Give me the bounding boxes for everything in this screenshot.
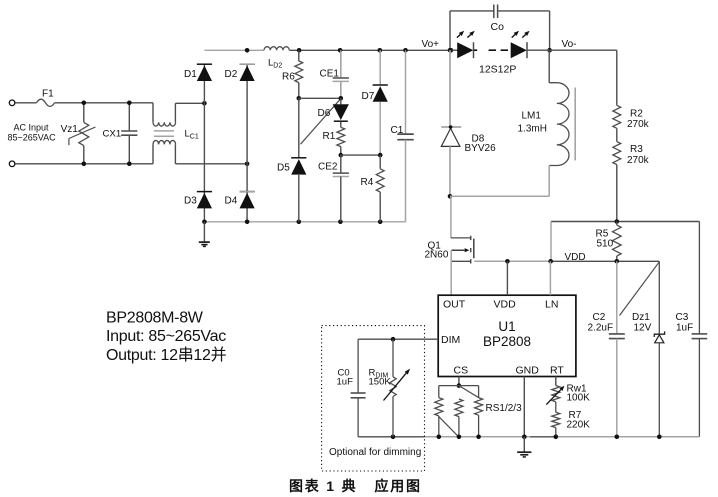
- svg-text:D4: D4: [225, 196, 238, 207]
- svg-text:Input: 85~265Vac: Input: 85~265Vac: [106, 328, 226, 345]
- svg-text:D6: D6: [318, 108, 331, 119]
- svg-text:85~265VAC: 85~265VAC: [8, 133, 57, 143]
- svg-text:CS: CS: [454, 365, 469, 377]
- svg-text:D2: D2: [225, 69, 238, 80]
- svg-text:Dz1: Dz1: [632, 312, 650, 323]
- svg-text:1uF: 1uF: [337, 377, 354, 388]
- svg-text:D7: D7: [362, 91, 375, 102]
- svg-text:C2: C2: [593, 312, 606, 323]
- svg-text:270k: 270k: [627, 155, 650, 166]
- svg-text:R1: R1: [323, 131, 336, 142]
- svg-text:GND: GND: [516, 365, 540, 377]
- svg-text:R2: R2: [630, 108, 643, 119]
- svg-text:150K: 150K: [369, 377, 392, 388]
- svg-text:RS1/2/3: RS1/2/3: [486, 403, 523, 414]
- svg-text:AC Input: AC Input: [14, 122, 50, 132]
- svg-text:2N60: 2N60: [425, 250, 449, 261]
- svg-text:D1: D1: [184, 69, 197, 80]
- svg-text:C1: C1: [391, 125, 404, 136]
- svg-text:VDD: VDD: [565, 252, 586, 263]
- svg-text:2.2uF: 2.2uF: [588, 323, 614, 334]
- svg-text:CE1: CE1: [320, 69, 340, 80]
- svg-text:R6: R6: [282, 72, 295, 83]
- svg-text:R3: R3: [630, 144, 643, 155]
- svg-text:220K: 220K: [567, 419, 591, 430]
- svg-text:D5: D5: [277, 162, 290, 173]
- svg-text:C3: C3: [676, 312, 689, 323]
- svg-text:Vz1: Vz1: [61, 124, 79, 135]
- svg-text:CX1: CX1: [103, 129, 122, 140]
- svg-text:BP2808: BP2808: [483, 334, 531, 349]
- svg-text:12V: 12V: [634, 323, 652, 334]
- svg-text:12S12P: 12S12P: [479, 64, 516, 76]
- svg-text:DIM: DIM: [441, 334, 460, 346]
- svg-text:图表 1 典 应用图: 图表 1 典 应用图: [289, 478, 422, 494]
- svg-text:Co: Co: [491, 21, 505, 33]
- svg-text:R4: R4: [361, 177, 374, 188]
- svg-text:F1: F1: [42, 88, 54, 99]
- svg-text:RT: RT: [550, 365, 564, 377]
- svg-text:1uF: 1uF: [676, 323, 693, 334]
- svg-text:OUT: OUT: [443, 299, 466, 311]
- svg-text:BYV26: BYV26: [465, 143, 497, 154]
- svg-text:CE2: CE2: [318, 162, 338, 173]
- svg-text:VDD: VDD: [494, 299, 517, 311]
- svg-text:D3: D3: [184, 196, 197, 207]
- svg-text:LN: LN: [545, 299, 558, 311]
- svg-text:BP2808M-8W: BP2808M-8W: [106, 310, 204, 327]
- svg-text:Output: 12串12并: Output: 12串12并: [106, 346, 227, 364]
- svg-text:1.3mH: 1.3mH: [518, 124, 547, 135]
- svg-text:Vo+: Vo+: [422, 39, 440, 50]
- svg-text:510: 510: [597, 239, 614, 250]
- svg-text:100K: 100K: [567, 393, 591, 404]
- svg-text:LM1: LM1: [522, 110, 542, 121]
- svg-text:270k: 270k: [627, 119, 650, 130]
- svg-text:Vo-: Vo-: [562, 39, 577, 50]
- svg-text:Optional for dimming: Optional for dimming: [329, 447, 421, 458]
- svg-text:U1: U1: [498, 319, 515, 334]
